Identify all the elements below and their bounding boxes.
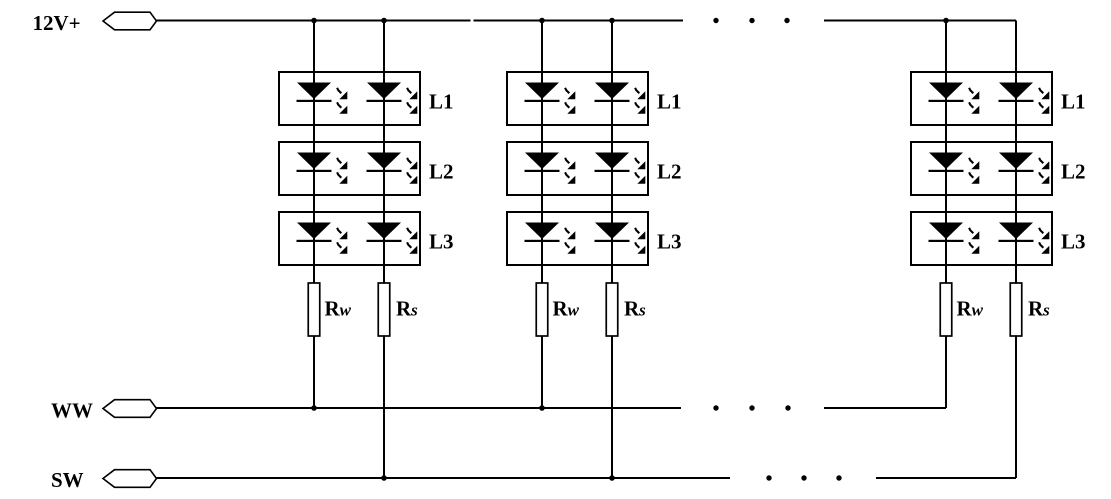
svg-text:Rw: Rw: [553, 297, 580, 321]
svg-text:Rs: Rs: [1028, 297, 1050, 321]
svg-text:12V+: 12V+: [33, 11, 81, 35]
svg-text:WW: WW: [51, 399, 93, 423]
svg-text:Rs: Rs: [396, 297, 418, 321]
svg-text:L1: L1: [657, 90, 682, 114]
svg-text:SW: SW: [51, 468, 84, 492]
svg-text:L3: L3: [657, 230, 682, 254]
svg-text:L1: L1: [429, 90, 454, 114]
svg-text:L2: L2: [429, 160, 454, 184]
svg-text:Rw: Rw: [957, 297, 984, 321]
svg-text:L2: L2: [657, 160, 682, 184]
svg-text:L3: L3: [429, 230, 454, 254]
svg-text:Rw: Rw: [325, 297, 352, 321]
svg-text:L3: L3: [1061, 230, 1086, 254]
svg-text:L2: L2: [1061, 160, 1086, 184]
svg-text:Rs: Rs: [624, 297, 646, 321]
svg-text:L1: L1: [1061, 90, 1086, 114]
